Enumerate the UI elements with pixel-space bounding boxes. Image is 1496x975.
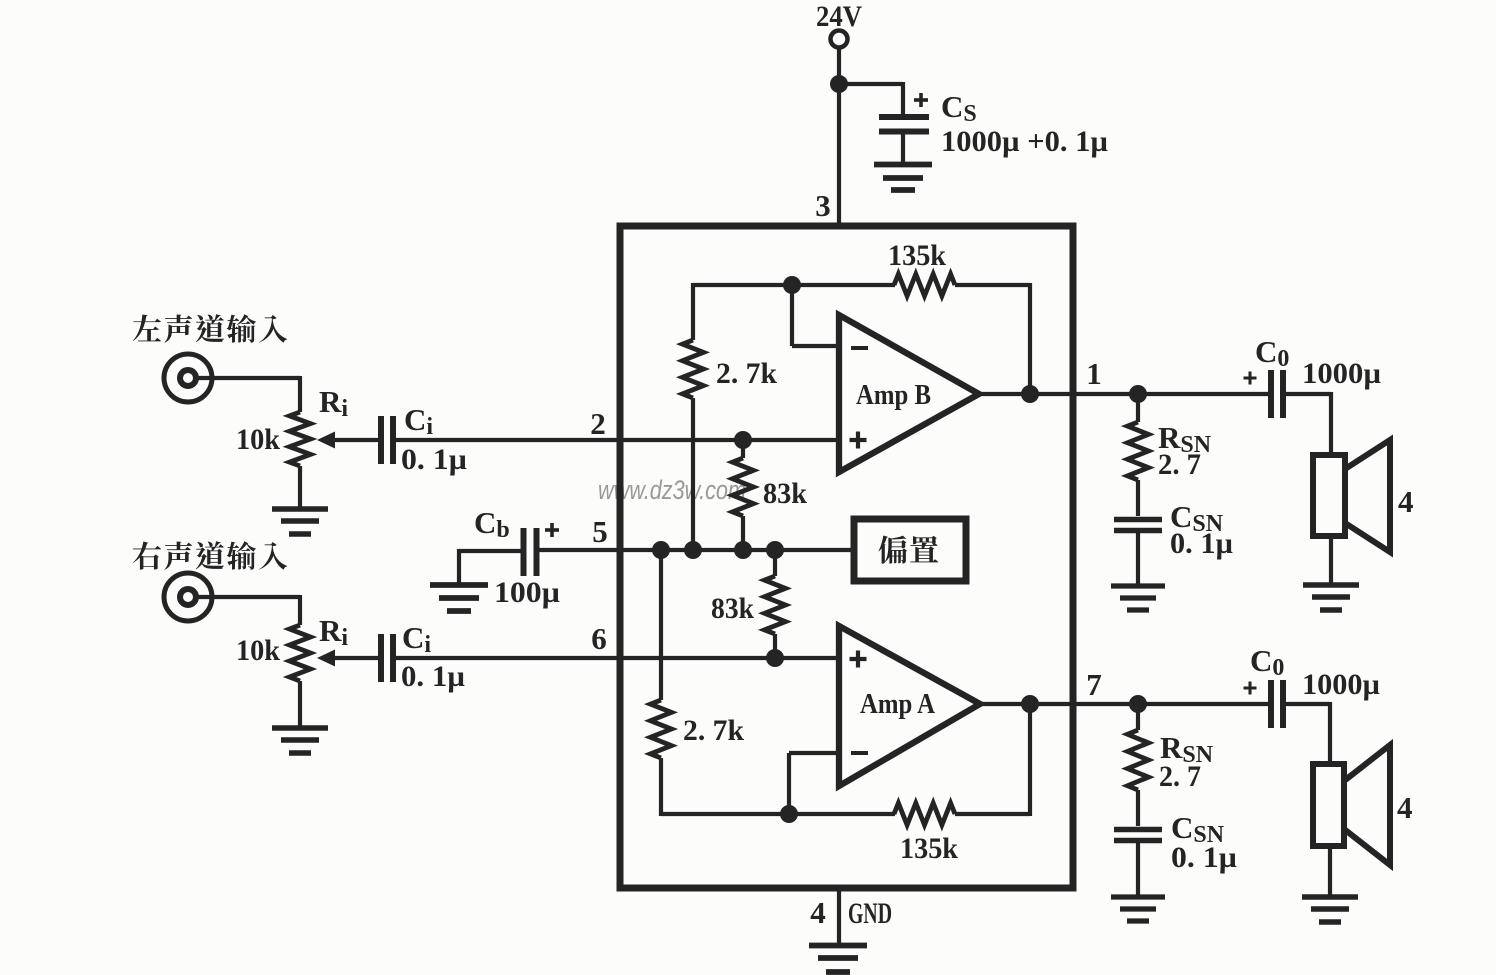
wire pin 5 bias line: [537, 548, 851, 552]
svg-text:2. 7: 2. 7: [1159, 760, 1201, 793]
svg-text:0. 1µ: 0. 1µ: [401, 660, 465, 693]
capacitor C0 upper: [1271, 370, 1283, 418]
svg-text:2: 2: [590, 406, 606, 441]
wiper arrow left-upper: [317, 432, 335, 449]
resistor 2.7k upper: [691, 283, 695, 340]
resistor RSN lower: [1136, 704, 1140, 730]
junction pin2/83k: [734, 431, 752, 449]
resistor RSN upper: [1136, 394, 1140, 422]
ground below CSN lower: [1111, 897, 1165, 921]
wire RCA-R to pot: [196, 595, 300, 599]
svg-text:3: 3: [815, 188, 831, 223]
wire 24V to pin 3: [837, 48, 841, 224]
svg-text:Amp B: Amp B: [856, 379, 931, 411]
ground main GND: [809, 946, 867, 973]
label left channel input 左声道输入: [133, 315, 161, 342]
svg-text:83k: 83k: [711, 592, 754, 625]
junction pin6/83k: [766, 649, 784, 667]
svg-text:10k: 10k: [236, 423, 280, 456]
svg-text:0. 1µ: 0. 1µ: [401, 443, 467, 476]
ground below Cb: [430, 585, 488, 611]
minus sign Amp A: [851, 751, 868, 755]
wire pin2 input to Amp B +: [396, 438, 838, 442]
resistor 83k upper: [741, 440, 745, 458]
wire CSN to ground lower: [1136, 840, 1140, 896]
svg-text:6: 6: [591, 621, 607, 656]
capacitor CS plates: [879, 117, 929, 132]
plus sign Amp A: [850, 651, 867, 668]
wiper arrow left-lower: [317, 650, 335, 667]
ground below Cs: [874, 165, 932, 191]
bias block 偏置: [854, 519, 966, 581]
capacitor Cb: [524, 528, 537, 576]
svg-text:1: 1: [1086, 356, 1102, 391]
resistor 83k lower: [773, 550, 777, 576]
polarity + of C0 upper: [1244, 372, 1257, 385]
wire feedback up to output A: [1028, 704, 1032, 816]
capacitor CSN upper: [1114, 520, 1162, 531]
resistor 135k (Amp B feedback): [894, 274, 955, 296]
junction pin7/RSN: [1129, 695, 1147, 713]
wire feedback top Amp B: [693, 283, 895, 287]
junction Amp A out: [1021, 695, 1039, 713]
op-amp Amp A: [839, 626, 980, 786]
svg-text:7: 7: [1086, 667, 1102, 702]
wire C0 to speaker upper: [1283, 392, 1331, 396]
svg-text:2. 7k: 2. 7k: [683, 714, 744, 747]
junction feedback bottom: [780, 805, 798, 823]
ground below CSN upper: [1111, 586, 1165, 610]
ground below pot lower: [272, 728, 328, 753]
speaker R: [1313, 764, 1344, 846]
capacitor Ci lower: [381, 634, 393, 682]
minus sign Amp B: [851, 346, 868, 350]
polarity + of C0 lower: [1244, 682, 1257, 695]
wire C0 to speaker lower: [1283, 702, 1330, 706]
ground below speaker lower: [1302, 897, 1358, 922]
label right channel input 右声道输入: [133, 542, 161, 570]
wire inverting input stub A: [787, 753, 791, 816]
junction Amp B out: [1021, 385, 1039, 403]
svg-text:4: 4: [1398, 484, 1414, 519]
potentiometer Ri right 10k: [290, 625, 311, 681]
polarity + of Cs: [914, 93, 928, 107]
junction 83k-upper/pin5: [734, 541, 752, 559]
capacitor CSN lower: [1114, 830, 1162, 841]
resistor 135k (Amp A feedback): [894, 803, 955, 825]
svg-text:2. 7k: 2. 7k: [716, 357, 777, 390]
wire pin 4 to ground: [837, 888, 841, 945]
svg-text:83k: 83k: [763, 477, 807, 510]
svg-text:GND: GND: [848, 897, 892, 930]
junction pin1/RSN: [1129, 385, 1147, 403]
svg-text:135k: 135k: [888, 239, 946, 272]
wire supply to Cs: [839, 82, 903, 86]
op-amp Amp B: [839, 315, 979, 472]
wire Amp A output pin 7: [980, 702, 1268, 706]
ground below speaker upper: [1303, 585, 1359, 610]
svg-text:24V: 24V: [816, 0, 862, 33]
svg-text:100µ: 100µ: [494, 576, 560, 609]
wire speaker to ground upper: [1329, 535, 1333, 584]
svg-text:2. 7: 2. 7: [1158, 448, 1201, 481]
svg-text:Amp A: Amp A: [860, 688, 935, 720]
svg-text:1000µ: 1000µ: [1302, 357, 1381, 390]
ground below pot upper: [272, 509, 328, 534]
svg-text:0. 1µ: 0. 1µ: [1171, 841, 1237, 874]
op-amp IC LM4752 outline box: [620, 226, 1073, 888]
capacitor Ci upper: [381, 416, 393, 464]
junction 2.7k-upper/pin5: [684, 541, 702, 559]
polarity + of Cb: [545, 523, 559, 537]
svg-text:5: 5: [592, 514, 608, 549]
wire feedback bottom A: [661, 812, 895, 816]
svg-text:135k: 135k: [900, 832, 958, 865]
junction 83k-lower/pin5: [766, 541, 784, 559]
connector RCA right: [164, 573, 212, 621]
capacitor C0 lower: [1271, 680, 1283, 728]
junction feedback top: [783, 276, 801, 294]
wire speaker to ground lower: [1328, 846, 1332, 896]
wire CSN to ground upper: [1136, 530, 1140, 585]
wire Cs to ground: [901, 131, 905, 163]
svg-text:10k: 10k: [236, 634, 280, 667]
svg-text:1000µ: 1000µ: [1302, 668, 1380, 701]
wire feedback down to output: [1028, 283, 1032, 394]
wire pin6 input to Amp A +: [396, 656, 838, 660]
junction 2.7k-lower/pin5: [652, 541, 670, 559]
svg-text:4: 4: [810, 895, 826, 930]
potentiometer Ri left 10k: [290, 412, 311, 466]
svg-text:0. 1µ: 0. 1µ: [1170, 527, 1233, 560]
resistor 2.7k lower: [659, 548, 663, 700]
speaker L: [1313, 455, 1345, 536]
svg-text:1000µ +0. 1µ: 1000µ +0. 1µ: [941, 125, 1108, 158]
svg-text:4: 4: [1397, 790, 1413, 825]
wire inverting input stub B: [790, 285, 794, 346]
connector RCA left: [164, 354, 212, 402]
wire Cb to ground: [459, 549, 524, 553]
wire RCA-L to pot: [196, 376, 300, 380]
wire Amp B output pin 1: [979, 392, 1268, 396]
plus sign Amp B: [850, 432, 867, 449]
junction supply node: [830, 75, 848, 93]
